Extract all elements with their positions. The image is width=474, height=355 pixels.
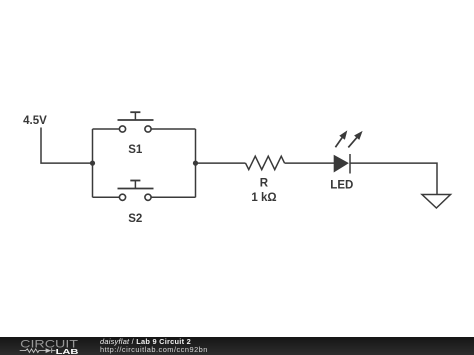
svg-text:S1: S1	[128, 144, 143, 156]
svg-text:R: R	[260, 178, 269, 190]
svg-text:1 kΩ: 1 kΩ	[251, 192, 276, 204]
svg-text:S2: S2	[128, 213, 142, 225]
svg-text:LAB: LAB	[56, 347, 80, 355]
svg-text:4.5V: 4.5V	[23, 115, 47, 127]
svg-text:LED: LED	[330, 180, 353, 192]
